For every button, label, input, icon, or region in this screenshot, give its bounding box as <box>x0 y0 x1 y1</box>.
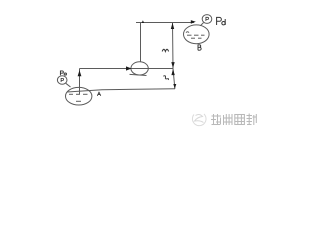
label P inside gauge PA <box>61 78 64 82</box>
gauge PB connector <box>200 23 203 26</box>
arrow flow into pump <box>126 66 132 70</box>
arrow dimension mid down <box>171 62 174 68</box>
label h1 rotated (lower dimension) <box>163 76 168 80</box>
wire suction riser <box>79 69 81 95</box>
tank B liquid level dashes <box>186 32 205 38</box>
watermark logo <box>192 114 206 126</box>
watermark text 株洲网新 <box>211 114 257 126</box>
label Pd text <box>217 17 226 25</box>
tank A liquid level dashes <box>69 94 88 101</box>
wire discharge pipe horizontal <box>136 22 194 24</box>
arrow dimension top up <box>171 23 174 29</box>
gauge PA connector <box>66 83 71 87</box>
dimension line vertical <box>173 23 175 89</box>
node A level reference line <box>67 89 175 92</box>
arrow dimension mid up <box>171 69 174 75</box>
arrow flow up suction riser <box>78 70 82 76</box>
wire suction line <box>80 68 173 70</box>
label tank A text <box>97 92 101 96</box>
arrow riser top tick <box>142 20 144 23</box>
label PA text <box>60 71 66 75</box>
label tank B text <box>198 45 201 50</box>
arrow dimension bottom down <box>173 84 176 89</box>
pump U1 <box>130 62 149 76</box>
label P inside gauge PB <box>206 17 209 21</box>
label h2 rotated (upper dimension) <box>162 49 168 51</box>
arrow discharge into tank B <box>191 20 196 24</box>
tank B <box>184 25 210 44</box>
pressure gauge PA circle <box>57 76 67 85</box>
wire discharge riser <box>140 23 142 63</box>
tank A <box>66 87 92 105</box>
pressure gauge PB circle <box>202 15 212 24</box>
